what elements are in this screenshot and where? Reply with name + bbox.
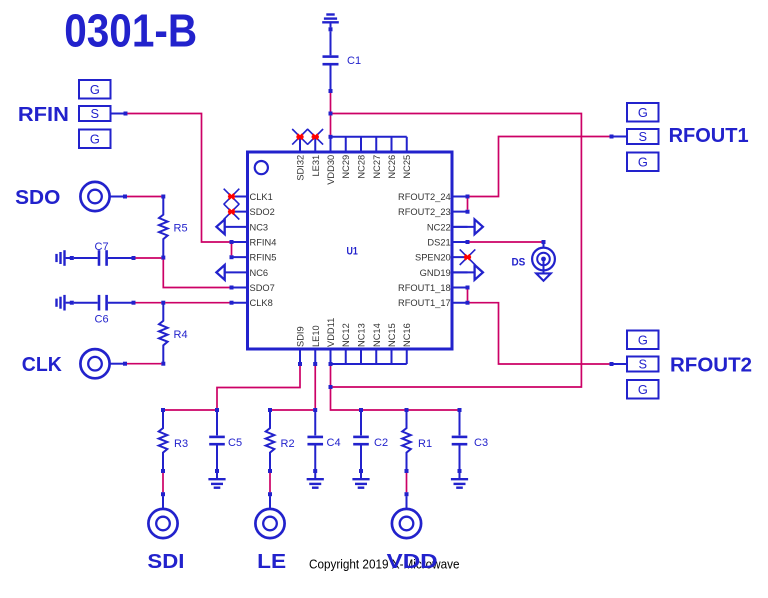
- capacitor C4 with ground: [314, 410, 316, 435]
- junction VDD11: [329, 362, 333, 366]
- IC U1 pin-1 marker: [255, 161, 268, 174]
- junction VDD net top: [329, 112, 333, 116]
- port SDI connector: [148, 509, 177, 538]
- svg-text:NC13: NC13: [357, 323, 367, 347]
- svg-text:SPEN20: SPEN20: [415, 253, 451, 263]
- svg-text:C2: C2: [374, 437, 388, 449]
- svg-text:NC28: NC28: [357, 155, 367, 179]
- no-connect arrow NC22: [451, 219, 483, 234]
- pin NC28: [357, 137, 367, 179]
- junction C2 top: [359, 408, 363, 412]
- port RFOUT1 pad G bottom: [627, 153, 659, 172]
- wire R4 to CLK: [127, 363, 161, 365]
- wire RFOUT2_24-23 tie: [467, 198, 469, 209]
- svg-text:C3: C3: [474, 437, 488, 449]
- pin RFOUT1_18: [398, 283, 468, 293]
- resistor R4: [159, 303, 168, 366]
- junction C6 right: [132, 301, 136, 305]
- port RFOUT2 pad S: [627, 357, 659, 372]
- svg-text:CLK1: CLK1: [250, 192, 273, 202]
- pin LE10: [311, 325, 321, 364]
- no-connect mark SDI32: [292, 129, 308, 145]
- junction C5 top: [215, 408, 219, 412]
- wire C1 to VDD node: [330, 93, 332, 112]
- capacitor C6: [74, 295, 132, 311]
- svg-text:SDI: SDI: [147, 551, 184, 573]
- pin LE31: [311, 137, 321, 177]
- junction C7 left: [70, 256, 74, 260]
- pin GND19: [420, 268, 468, 278]
- svg-text:G: G: [90, 131, 100, 146]
- wire RFOUT2_24 to RFOUT1 port: [469, 137, 609, 197]
- svg-text:DS21: DS21: [427, 238, 450, 248]
- svg-text:C4: C4: [327, 437, 341, 449]
- junction LE10: [313, 362, 317, 366]
- svg-text:RFOUT2_24: RFOUT2_24: [398, 192, 451, 202]
- junction RFIN5: [230, 255, 234, 259]
- junction C7 right: [132, 256, 136, 260]
- wire SDO stub: [110, 196, 124, 198]
- junction VDD stem: [405, 492, 409, 496]
- svg-text:SDI32: SDI32: [296, 155, 306, 181]
- junction CLK: [123, 362, 127, 366]
- junction C6 left: [70, 301, 74, 305]
- svg-text:SDO2: SDO2: [250, 207, 275, 217]
- svg-text:R3: R3: [174, 438, 188, 450]
- capacitor C2 with ground: [360, 410, 362, 435]
- junction R4 top: [161, 301, 165, 305]
- svg-text:SDO7: SDO7: [250, 283, 275, 293]
- svg-text:RFOUT1_18: RFOUT1_18: [398, 283, 451, 293]
- svg-text:C5: C5: [228, 437, 242, 449]
- pin VDD11: [326, 318, 336, 364]
- port CLK connector: [80, 349, 109, 378]
- wire CLK stub: [110, 363, 124, 365]
- svg-text:S: S: [91, 106, 100, 121]
- svg-text:G: G: [638, 105, 648, 120]
- svg-text:VDD: VDD: [387, 551, 438, 573]
- resistor R2: [266, 410, 275, 473]
- pin NC13: [357, 323, 367, 364]
- no-connect mark SPEN20: [460, 249, 476, 265]
- pin NC26: [387, 137, 397, 179]
- wire node R3-C5: [163, 409, 215, 411]
- wire node R2-C4: [270, 409, 313, 411]
- port RFIN pad G bottom: [79, 130, 111, 149]
- wire VDD30 drop: [330, 115, 332, 134]
- wire R1 to VDD: [406, 473, 408, 492]
- wire RFIN stub: [111, 113, 125, 115]
- svg-text:SDI9: SDI9: [296, 326, 306, 347]
- pin RFIN4: [232, 238, 277, 248]
- svg-text:G: G: [638, 332, 648, 347]
- wire RFOUT2 stub: [613, 363, 627, 365]
- wire C7 to R5: [135, 257, 161, 259]
- junction VDD30: [329, 135, 333, 139]
- svg-text:CLK: CLK: [22, 354, 63, 376]
- pin RFOUT2_24: [398, 192, 468, 202]
- indicator DS: [532, 244, 555, 281]
- wire RFOUT1_18-17 tie: [467, 289, 469, 300]
- svg-text:NC25: NC25: [402, 155, 412, 179]
- junction SDI9: [298, 362, 302, 366]
- wire R5 to SDO7: [163, 260, 229, 288]
- bus top NC pins: [331, 136, 407, 138]
- svg-text:RFOUT1_17: RFOUT1_17: [398, 298, 451, 308]
- capacitor C7: [74, 250, 132, 266]
- pin SDO2: [232, 207, 275, 217]
- svg-text:GND19: GND19: [420, 268, 451, 278]
- svg-text:C1: C1: [347, 55, 361, 67]
- junction RFOUT1_17: [466, 301, 470, 305]
- port RFOUT1 pad G top: [627, 103, 659, 122]
- svg-text:NC3: NC3: [250, 222, 269, 232]
- junction LE stem: [268, 492, 272, 496]
- no-connect mark CLK1: [224, 189, 240, 205]
- svg-text:S: S: [639, 129, 648, 144]
- capacitor C1: [323, 31, 339, 89]
- junction C4 top: [313, 408, 317, 412]
- wire RFIN4-RFIN5 tie: [231, 244, 233, 255]
- port RFIN pad S: [79, 106, 111, 121]
- pin NC25: [402, 137, 412, 179]
- svg-text:RFOUT2: RFOUT2: [670, 355, 752, 377]
- no-connect mark LE31: [307, 129, 323, 145]
- junction RFOUT2_24: [466, 195, 470, 199]
- pin NC14: [372, 323, 382, 364]
- pin SPEN20: [415, 253, 467, 263]
- ground stub C7 left: [57, 250, 71, 266]
- junction SDI stem: [161, 492, 165, 496]
- IC U1 body: [248, 152, 453, 349]
- ground stub C6 left: [57, 295, 71, 311]
- pin NC15: [387, 323, 397, 364]
- svg-text:G: G: [638, 382, 648, 397]
- junction RFOUT1_18: [466, 286, 470, 290]
- pin CLK1: [232, 192, 273, 202]
- pin NC16: [402, 323, 412, 364]
- pin RFIN5: [232, 253, 277, 263]
- svg-text:SDO: SDO: [15, 187, 60, 209]
- svg-text:LE31: LE31: [311, 155, 321, 177]
- wire SDI stem: [162, 496, 164, 509]
- svg-text:NC12: NC12: [341, 323, 351, 347]
- pin RFOUT1_17: [398, 298, 468, 308]
- svg-text:R5: R5: [174, 223, 188, 235]
- svg-text:NC14: NC14: [372, 323, 382, 347]
- wire VDD net loop: [332, 114, 581, 388]
- wire VDD stem: [406, 496, 408, 509]
- pin CLK8: [232, 298, 273, 308]
- no-connect mark SDO2: [224, 204, 240, 220]
- junction SDO: [123, 195, 127, 199]
- svg-text:R1: R1: [418, 438, 432, 450]
- junction DS: [542, 240, 546, 244]
- wire R3 to SDI: [162, 473, 164, 492]
- capacitor C3 with ground: [459, 410, 461, 435]
- pin DS21: [427, 238, 467, 248]
- svg-text:LE: LE: [257, 551, 286, 573]
- wire LE stem: [269, 496, 271, 509]
- port VDD connector: [392, 509, 421, 538]
- junction R2 top: [268, 408, 272, 412]
- pin NC29: [341, 137, 351, 179]
- port RFIN pad G top: [79, 80, 111, 99]
- junction R1 top: [405, 408, 409, 412]
- no-connect arrow NC6: [216, 265, 224, 280]
- svg-text:NC22: NC22: [427, 222, 451, 232]
- svg-text:R4: R4: [174, 329, 188, 341]
- port RFOUT2 pad G top: [627, 331, 659, 350]
- svg-text:R2: R2: [281, 438, 295, 450]
- wire DS21 to DS: [469, 241, 541, 243]
- svg-text:RFIN5: RFIN5: [250, 253, 277, 263]
- junction R3 top: [161, 408, 165, 412]
- svg-text:0301-B: 0301-B: [64, 5, 197, 57]
- svg-text:DS: DS: [512, 257, 526, 269]
- junction C1 bottom: [329, 89, 333, 93]
- svg-text:NC26: NC26: [387, 155, 397, 179]
- junction SDO7: [230, 286, 234, 290]
- junction RFOUT2_23: [466, 210, 470, 214]
- pin NC22: [427, 222, 468, 232]
- junction VDD net bottom: [329, 385, 333, 389]
- svg-text:G: G: [90, 82, 100, 97]
- svg-text:U1: U1: [347, 245, 358, 257]
- port LE connector: [255, 509, 284, 538]
- no-connect arrow GND19: [451, 265, 483, 280]
- wire SDO to R5: [127, 196, 161, 198]
- resistor R3: [159, 410, 168, 473]
- svg-text:S: S: [639, 357, 648, 372]
- svg-text:C7: C7: [95, 241, 109, 253]
- svg-text:VDD30: VDD30: [326, 155, 336, 185]
- junction RFIN: [124, 112, 128, 116]
- pin RFOUT2_23: [398, 207, 468, 217]
- junction C3 top: [458, 408, 462, 412]
- resistor R5: [159, 195, 168, 260]
- svg-text:C6: C6: [95, 313, 109, 325]
- svg-text:NC6: NC6: [250, 268, 269, 278]
- ground G1 top: [322, 15, 339, 28]
- pin VDD30: [326, 137, 336, 185]
- junction RFOUT1: [610, 135, 614, 139]
- svg-text:VDD11: VDD11: [326, 318, 336, 347]
- junction RFOUT2: [610, 362, 614, 366]
- svg-text:NC29: NC29: [341, 155, 351, 179]
- pin NC12: [341, 323, 351, 364]
- wire VDD node to C3: [331, 389, 458, 410]
- junction RFIN4: [230, 240, 234, 244]
- svg-text:CLK8: CLK8: [250, 298, 273, 308]
- capacitor C5 with ground: [216, 410, 218, 435]
- resistor R1: [402, 410, 411, 473]
- wire C6 to R4 junction: [135, 302, 161, 304]
- svg-text:RFIN4: RFIN4: [250, 238, 277, 248]
- wire net RFIN: [127, 114, 229, 243]
- port SDO connector: [80, 182, 109, 211]
- svg-text:RFIN: RFIN: [18, 104, 69, 126]
- port RFOUT2 pad G bottom: [627, 380, 659, 399]
- wire RFOUT1_17 to RFOUT2 port: [469, 303, 609, 364]
- no-connect arrow NC3: [216, 219, 224, 234]
- svg-text:NC16: NC16: [402, 323, 412, 347]
- junction C1 top: [329, 27, 333, 31]
- svg-text:LE10: LE10: [311, 325, 321, 347]
- port RFOUT1 pad S: [627, 129, 659, 144]
- svg-text:NC15: NC15: [387, 323, 397, 347]
- svg-text:RFOUT2_23: RFOUT2_23: [398, 207, 451, 217]
- wire R4 junction to CLK8: [165, 302, 229, 304]
- pin NC27: [372, 137, 382, 179]
- svg-text:G: G: [638, 154, 648, 169]
- pin SDI32: [296, 137, 306, 181]
- junction CLK8: [230, 301, 234, 305]
- wire R2 to LE: [269, 473, 271, 492]
- pin NC3: [226, 222, 269, 232]
- wire VDD11 down: [330, 366, 332, 385]
- pin SDI9: [296, 326, 306, 364]
- bus bottom NC pins: [331, 363, 407, 365]
- pin NC6: [226, 268, 269, 278]
- pin SDO7: [232, 283, 275, 293]
- svg-text:NC27: NC27: [372, 155, 382, 179]
- svg-text:RFOUT1: RFOUT1: [669, 125, 749, 147]
- wire SDI9 to C5 node: [217, 366, 300, 408]
- junction DS21: [466, 240, 470, 244]
- wire LE10 to C4 node: [314, 366, 316, 408]
- wire RFOUT1 stub: [613, 136, 627, 138]
